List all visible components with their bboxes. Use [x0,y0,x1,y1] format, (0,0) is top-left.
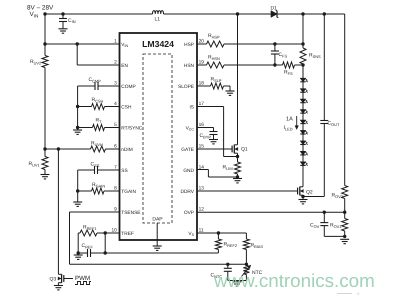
resistor RGAIN [78,182,120,194]
svg-text:GATE: GATE [181,147,194,153]
capacitor COUT [320,14,340,197]
node pin1 wire at VIN rail [43,42,46,45]
wire TSENSE [70,212,247,264]
svg-text:RSLP: RSLP [211,77,222,83]
pin 13 label DDRV [180,189,194,195]
wire TREF down [104,233,106,253]
svg-text:L1: L1 [155,17,161,23]
svg-text:9: 9 [114,207,117,213]
svg-text:CCMP: CCMP [89,77,102,83]
svg-text:RT: RT [96,118,103,124]
node CREF ground corner [77,251,80,254]
pin 6 label nDIM [121,147,132,153]
svg-text:1A: 1A [286,117,293,123]
svg-text:RGAIN: RGAIN [92,182,105,188]
resistor RSNS [300,48,321,64]
node RREF2 top [217,231,220,234]
node RLIM ground junction [236,175,239,178]
pin 10 label TREF [121,231,134,237]
svg-text:3: 3 [114,81,117,87]
svg-text:RUV1: RUV1 [29,161,40,167]
wire Q2 source stub [302,197,304,200]
pin 4 number [114,101,117,107]
svg-text:COUT: COUT [328,121,340,127]
pin 2 number [114,60,117,66]
node VIN junction [43,12,46,15]
svg-text:GND: GND [183,168,194,174]
node COUT rail top [323,12,326,15]
node CFS bottom [273,63,276,66]
ground ss rail [73,202,82,206]
LED D7 [300,130,307,134]
resistor RREF2 [215,233,237,250]
svg-text:IS: IS [189,104,194,110]
resistor RCSH [78,97,120,110]
ground CBYP [209,140,218,144]
node EN branch [76,42,79,45]
node RSNS top [301,42,304,45]
ground comp rail [73,130,82,134]
wire nDIM from rail [45,148,91,150]
node CNTC junction [226,263,229,266]
wire GATE [197,148,232,150]
ground CIN [59,29,68,33]
LED D3 [300,89,307,93]
pin 18 label SLOPE [178,84,194,90]
wire SW node [237,14,239,142]
wire GND pin [197,170,238,178]
pin 18 number [199,81,205,87]
node TREF junction [104,231,107,234]
wire L1 to D1 [164,13,272,15]
svg-text:RFS: RFS [284,70,293,76]
wire Q1 source to RLIM [237,157,239,163]
node ROV1 ground junction [343,235,346,238]
svg-text:RHSN: RHSN [208,55,220,61]
svg-text:7: 7 [114,165,117,171]
inductor L1 [153,11,164,23]
svg-text:RUVH: RUVH [91,141,103,147]
svg-text:Q3: Q3 [50,277,57,283]
pin 11 number [199,228,204,234]
node SW top junction [236,12,239,15]
resistor RREF1 [80,225,120,237]
svg-text:RUV2: RUV2 [30,59,41,65]
pwm waveform icon [75,282,91,285]
capacitor CSS [78,162,120,175]
wire RUV1 to ground [44,170,46,175]
pin 1 number [114,39,117,45]
pin 8 number [114,186,117,192]
capacitor CNTC [211,264,238,280]
op-amp U1 LM3424 body [120,33,198,240]
resistor RBIAS [243,233,263,264]
pin 11 label VS [188,231,194,237]
wire TREF to RREF2 [105,250,218,254]
svg-text:4: 4 [114,101,117,107]
resistor ROV2 [332,186,348,213]
transistor Q1 [232,142,248,156]
pin 8 label TGAIN [121,189,136,195]
svg-text:CSS: CSS [91,162,100,168]
capacitor CCMP [78,77,120,90]
wire ss ground rail [77,170,79,202]
ground Q3 [54,286,63,290]
watermark cntronics [213,270,375,291]
svg-text:COV: COV [310,223,320,229]
svg-text:SLOPE: SLOPE [178,84,194,90]
node CFS top [273,42,276,45]
LED D9 [300,151,307,155]
svg-text:RLIM: RLIM [223,165,233,171]
node RT rail [76,126,79,129]
wire DDRV [197,190,298,192]
pin 15 number [199,144,205,150]
node NTC top junction [245,263,248,266]
svg-text:COMP: COMP [121,84,135,90]
svg-text:PWM: PWM [75,275,90,282]
pin 17 label IS [189,104,194,110]
pin 15 label GATE [181,147,194,153]
pin 14 number [199,165,205,171]
ground NTC [233,282,242,286]
svg-text:TREF: TREF [121,231,134,237]
pin 3 number [114,81,117,87]
wire DAP to ground [156,223,158,246]
svg-text:6: 6 [114,144,117,150]
LED D5 [300,110,307,114]
label 8V-28V [27,5,54,12]
svg-text:ROV2: ROV2 [332,193,343,199]
ground Q2 [299,200,308,204]
resistor RLIM [223,162,241,174]
resistor RHSN [197,55,283,69]
resistor RUVH [91,141,120,153]
label 1A ILED [284,116,299,131]
pin 12 number [199,207,205,213]
pin 7 number [114,165,117,171]
wire VS [197,232,246,234]
wire LED string [302,76,304,186]
LED D4 [300,99,307,103]
svg-text:CFS: CFS [279,52,288,58]
node Q2 source junction [301,195,304,198]
svg-text:RBIAS: RBIAS [251,243,264,249]
svg-text:Q2: Q2 [306,190,313,196]
ground CREF [74,255,83,259]
wire top rail VIN to L1 [45,13,153,15]
LED D8 [300,141,307,145]
svg-text:Q1: Q1 [241,147,248,153]
pin 6 number [114,144,117,150]
pin 20 label HSP [184,42,194,48]
pin 1 label VIN [121,42,128,48]
svg-text:CREF: CREF [82,243,94,249]
capacitor CREF [78,243,105,257]
pin 7 label SS [121,168,127,174]
label PWM [75,275,90,282]
svg-text:1: 1 [114,39,117,45]
svg-text:www.cntronics.com: www.cntronics.com [213,270,375,291]
wire Q3 drain [57,149,59,272]
resistor RUV2 [30,56,48,68]
wire EN branch [77,44,119,65]
pin 5 label RT/SYNC [121,125,143,131]
svg-text:RCSH: RCSH [92,97,104,103]
node LED rail top [301,12,304,15]
ground DAP [153,246,162,250]
wire RREF1 left leg [78,233,80,253]
svg-text:RREF1: RREF1 [83,225,97,231]
wire OVP [197,211,345,213]
wire LED rail top [302,14,304,48]
transistor Q2 [298,184,313,198]
pin 14 label GND [183,168,194,174]
wire Q3 gate lead [64,278,73,280]
wire VIN rail upper [44,14,46,56]
pin 13 number [199,186,205,192]
svg-text:TSENSE: TSENSE [121,210,140,216]
LED D2 [300,78,307,82]
pin 16 number [199,122,205,128]
pin 10 number [111,228,117,234]
ground RSLP [226,91,235,95]
capacitor COV [310,212,345,236]
node TREF lower junction [104,251,107,254]
corner mark [337,291,360,296]
pin 4 label CSH [121,104,132,110]
svg-text:10: 10 [111,228,117,234]
svg-text:ROV1: ROV1 [330,223,341,229]
wire VIN rail lower [44,68,46,157]
svg-text:RHSP: RHSP [208,33,220,39]
svg-text:5: 5 [114,122,117,128]
svg-text:OVP: OVP [184,210,194,216]
node LED string top [301,63,304,66]
pin 19 label HSN [184,63,195,69]
wire comp ground rail [77,86,79,130]
transistor Q3 [50,272,64,286]
resistor RUV1 [29,157,49,170]
node CIN tap [61,12,64,15]
pin 9 label TSENSE [121,210,140,216]
svg-text:2: 2 [114,60,117,66]
svg-text:RSNS: RSNS [309,53,321,59]
wire RSNS bottom [302,64,304,76]
svg-text:TGAIN: TGAIN [121,189,136,195]
wire D1 to top right corner [277,13,345,15]
capacitor CIN [59,14,76,29]
pin 9 number [114,207,117,213]
svg-text:nDIM: nDIM [121,147,132,153]
resistor RFS [283,62,304,76]
resistor RT [78,118,120,131]
wire right rail [344,14,346,186]
DAP dashed pad [143,54,172,223]
svg-text:CBYP: CBYP [200,133,212,139]
svg-text:·ϵ: ·ϵ [356,291,360,296]
wire IS [197,107,238,157]
diode D1 [271,6,279,18]
LED D10 [300,162,307,166]
resistor RSLP [197,77,230,92]
svg-text:SS: SS [121,168,127,174]
capacitor CBYP [197,128,218,140]
svg-text:DDRV: DDRV [180,189,194,195]
svg-text:DAP: DAP [152,217,163,223]
ground ROV1 [340,239,349,243]
wire RLIM bottom [237,174,239,177]
svg-text:D1: D1 [271,6,278,12]
LED D6 [300,120,307,124]
label VIN [30,11,39,18]
svg-text:8: 8 [114,186,117,192]
pin 17 number [199,101,205,107]
svg-text:CSH: CSH [121,104,132,110]
pin 20 number [199,39,205,45]
capacitor CFS [271,44,288,65]
node RGAIN rail [76,189,79,192]
pin 16 label VCC [186,125,195,131]
pin 19 number [199,60,205,66]
pin 2 label EN [121,63,128,69]
node OVP divider junction [343,211,346,214]
svg-text:RREF2: RREF2 [224,242,238,248]
node CSH rail [76,105,79,108]
thermistor NTC [237,265,263,281]
node COV junction [323,211,326,214]
resistor ROV1 [330,212,348,236]
pin 3 label COMP [121,84,135,90]
svg-text:LM3424: LM3424 [142,39,174,49]
svg-text:CIN: CIN [68,18,76,24]
svg-text:HSP: HSP [184,42,194,48]
node Q1 source junction [236,155,239,158]
svg-text:12: 12 [199,207,205,213]
node Q3 drain tap [57,147,60,150]
label LM3424 [142,39,174,49]
svg-text:ILED: ILED [284,125,293,131]
pin 12 label OVP [184,210,194,216]
svg-text:EN: EN [121,63,128,69]
pin 5 number [114,122,117,128]
wire VIN to pin1 [45,43,120,45]
ground RLIM [233,179,242,183]
resistor RHSP [197,33,303,47]
svg-text:HSN: HSN [184,63,195,69]
ground RUV1 [41,175,50,179]
node nDIM branch [43,147,46,150]
svg-text:RT/SYNC: RT/SYNC [121,125,143,131]
wire COUT bottom to Q2 source [303,196,324,198]
svg-text:VIN: VIN [30,11,39,18]
